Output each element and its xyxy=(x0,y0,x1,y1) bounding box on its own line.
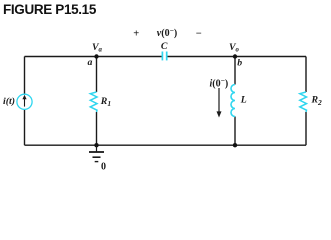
wire L column lower xyxy=(234,117,236,146)
svg-text:i(t): i(t) xyxy=(3,96,15,107)
wire right vertical upper xyxy=(305,57,307,93)
svg-text:R2: R2 xyxy=(311,95,323,107)
svg-text:R1: R1 xyxy=(100,96,111,108)
node a dot xyxy=(94,54,98,58)
resistor R1 xyxy=(90,92,97,112)
junction dot L bottom xyxy=(233,143,237,147)
wire right vertical lower xyxy=(305,112,307,145)
svg-text:C: C xyxy=(161,41,168,52)
node b dot xyxy=(233,54,237,58)
inductor L xyxy=(231,85,235,117)
wire top-left segment (a to C left plate) xyxy=(25,56,162,58)
svg-text:−: − xyxy=(196,28,202,39)
current source i(t) xyxy=(17,94,32,109)
svg-text:L: L xyxy=(240,95,247,106)
svg-text:0: 0 xyxy=(101,161,106,172)
junction dot ground xyxy=(94,143,98,147)
svg-text:+: + xyxy=(133,28,139,39)
svg-text:a: a xyxy=(88,57,93,68)
arrow i(0-) initial inductor current xyxy=(217,88,222,118)
wire left vertical lower xyxy=(24,110,26,146)
svg-text:Va: Va xyxy=(92,42,103,54)
svg-text:v(0−): v(0−) xyxy=(157,26,177,39)
resistor R2 xyxy=(300,92,307,112)
wire top-right segment (C right plate to right corner) xyxy=(167,56,306,58)
svg-text:b: b xyxy=(237,57,242,68)
svg-text:Vo: Vo xyxy=(229,42,240,54)
capacitor C xyxy=(162,52,166,61)
wire R1 column upper xyxy=(96,57,98,93)
ground xyxy=(89,145,104,161)
wire L column upper xyxy=(234,57,236,85)
wire left vertical upper xyxy=(24,57,26,95)
wire bottom xyxy=(25,144,307,146)
wire R1 column lower xyxy=(96,112,98,145)
svg-text:i(0−): i(0−) xyxy=(210,76,229,89)
